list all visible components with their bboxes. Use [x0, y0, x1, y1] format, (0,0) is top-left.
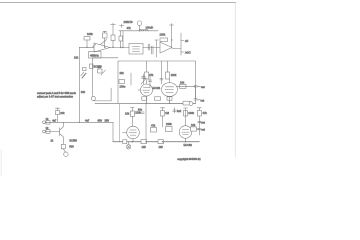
resistor R4: [119, 36, 123, 41]
svg-text:out: out: [201, 99, 205, 103]
capacitor C10: [174, 108, 176, 113]
capacitor C11: [198, 120, 201, 122]
border frame left remnant: [0, 150, 2, 176]
svg-text:out: out: [201, 120, 205, 124]
resistor R6: [98, 69, 103, 73]
border frame right: [234, 2, 236, 157]
resistor R7 plate: [146, 61, 148, 72]
wire coupling riser: [160, 61, 162, 84]
svg-text:10k: 10k: [74, 56, 79, 60]
resistor R29 top: [197, 107, 201, 109]
svg-text:1M: 1M: [165, 111, 169, 115]
svg-text:4u7: 4u7: [85, 118, 90, 122]
wire riser x131: [130, 73, 132, 85]
node phones A: [199, 121, 202, 123]
lamp LA1: [123, 140, 127, 144]
resistor R18: [46, 130, 50, 134]
node line out A: [197, 85, 200, 87]
tube V3: [127, 126, 140, 139]
svg-text:AGC: AGC: [185, 50, 191, 54]
IC filter FL1: [129, 44, 143, 55]
wire output column: [180, 33, 182, 55]
border frame top: [0, 2, 236, 4]
svg-text:220k: 220k: [171, 73, 177, 77]
svg-text:adjust per 1-97 text construct: adjust per 1-97 text construction: [37, 95, 74, 98]
enclosure box right: [195, 61, 197, 103]
jack J1: [91, 96, 95, 100]
tube V2: [162, 83, 178, 97]
resistor R1: [84, 37, 90, 41]
wire long vertical bus: [78, 47, 80, 122]
diode D1 LED: [82, 73, 86, 78]
transistor Q2: [101, 70, 106, 75]
power tap +V left: [111, 24, 116, 26]
resistor R27 on rail: [158, 140, 164, 144]
svg-text:560: 560: [69, 145, 74, 149]
capacitor C12: [198, 127, 201, 129]
wire input top-left: [79, 46, 94, 48]
wire riser x92: [91, 58, 93, 96]
jack J3 mic: [63, 149, 65, 152]
wire U1 out: [110, 47, 129, 49]
resistor R28 cathode: [167, 97, 172, 100]
svg-text:100k: 100k: [87, 32, 93, 36]
resistor R26 on rail: [141, 140, 147, 144]
capacitor C9: [141, 111, 144, 113]
svg-text:220k: 220k: [166, 122, 172, 126]
svg-text:4k7: 4k7: [97, 65, 102, 69]
enclosure box top: [118, 60, 196, 62]
svg-text:out: out: [201, 85, 205, 89]
node OUT1: [181, 40, 184, 42]
jack J2: [189, 102, 193, 106]
wire U2 out: [172, 48, 181, 50]
resistor R17: [46, 121, 50, 125]
svg-text:1k5: 1k5: [142, 145, 147, 149]
tube V4: [179, 126, 192, 139]
svg-text:ECC81: ECC81: [153, 87, 161, 90]
wire ground rail mid: [95, 102, 196, 104]
svg-text:10k: 10k: [60, 111, 65, 115]
op-amp U1: [94, 43, 110, 52]
resistor R14 cathode: [155, 97, 161, 100]
svg-text:out: out: [201, 128, 205, 132]
svg-text:47k: 47k: [151, 124, 156, 128]
node line out B: [197, 99, 200, 101]
resistor R15 on rail: [183, 101, 190, 105]
svg-text:455kHz: 455kHz: [90, 54, 99, 58]
svg-text:1k: 1k: [51, 140, 54, 143]
crystal X1: [89, 52, 102, 59]
trimmer P1: [103, 30, 107, 32]
wire riser x111: [110, 88, 112, 101]
svg-text:47k: 47k: [203, 111, 208, 115]
resistor R20 grid: [130, 107, 134, 109]
power tap +V right: [170, 24, 174, 26]
ground rail bottom: [113, 141, 199, 143]
svg-text:47k: 47k: [149, 73, 154, 77]
resistor R9 plate: [167, 61, 169, 72]
resistor R25: [191, 127, 197, 131]
transistor Q3: [59, 128, 61, 136]
capacitor C3: [150, 46, 152, 54]
tube V1: [141, 84, 153, 96]
resistor R24 plate: [184, 111, 188, 117]
svg-text:AF: AF: [185, 39, 189, 43]
svg-text:47k: 47k: [127, 26, 132, 30]
wire top rail: [119, 30, 158, 32]
svg-text:ECC82: ECC82: [184, 143, 193, 147]
enclosure box left: [117, 61, 119, 103]
svg-text:1k: 1k: [46, 126, 49, 130]
resistor R16: [56, 111, 60, 115]
inductor L1: [139, 29, 148, 30]
svg-text:100uH: 100uH: [146, 26, 154, 30]
wire riser x156: [156, 40, 158, 57]
svg-text:100k: 100k: [160, 32, 166, 36]
capacitor C5 variable: [143, 74, 145, 84]
capacitor C2: [147, 44, 149, 50]
svg-text:2n2: 2n2: [177, 109, 182, 113]
wire J1 out: [95, 100, 111, 102]
resistor R19 emitter: [61, 144, 65, 149]
terminal input A: [43, 121, 46, 124]
svg-text:100k: 100k: [188, 111, 194, 115]
wire input A: [45, 121, 63, 123]
wire V4 out: [192, 128, 200, 130]
resistor R22: [166, 127, 173, 132]
wire box edge down: [118, 104, 120, 142]
op-amp U2: [160, 42, 172, 53]
wire input B: [45, 131, 59, 133]
svg-text:2N5179: 2N5179: [124, 20, 134, 24]
svg-text:10k: 10k: [180, 80, 185, 84]
meter M1: [137, 21, 142, 26]
resistor R5 feedback: [160, 38, 168, 42]
capacitor C8: [194, 98, 197, 100]
svg-text:63V: 63V: [98, 118, 103, 122]
wire V2 out: [177, 85, 196, 87]
capacitor C7: [194, 85, 197, 87]
svg-text:10k: 10k: [125, 112, 130, 116]
power tap mic supply: [56, 107, 60, 109]
capacitor C1 input: [93, 44, 96, 46]
wire riser x113: [112, 122, 114, 141]
svg-text:10n: 10n: [138, 108, 143, 112]
resistor R13 cathode: [142, 97, 147, 100]
wire box to U2: [143, 47, 160, 49]
svg-text:1k5: 1k5: [159, 145, 164, 149]
svg-text:25V: 25V: [105, 118, 110, 122]
capacitor C6: [149, 74, 151, 88]
resistor R23: [161, 107, 165, 109]
svg-text:100n: 100n: [120, 84, 126, 88]
svg-text:4u7: 4u7: [52, 119, 57, 122]
transistor Q1: [90, 64, 94, 69]
power tap +V mid: [120, 25, 125, 27]
terminal input B: [43, 130, 46, 133]
wire AF run: [63, 121, 113, 123]
svg-text:10k: 10k: [81, 90, 86, 94]
resistor R10: [180, 84, 187, 88]
wire out column: [198, 120, 200, 136]
svg-text:1k: 1k: [46, 117, 49, 121]
wire mid horizontal: [92, 57, 118, 59]
junction dots: [79, 30, 187, 142]
svg-text:10k: 10k: [191, 123, 196, 127]
wire mid riser x146: [145, 104, 147, 142]
node OUT2: [181, 51, 184, 53]
svg-text:copyright 994084-11: copyright 994084-11: [177, 157, 201, 161]
resistor R2: [111, 35, 115, 41]
wire riser x123: [122, 31, 124, 48]
svg-text:BC550: BC550: [70, 139, 78, 142]
resistor R21: [151, 128, 157, 133]
svg-text:2k2: 2k2: [120, 71, 125, 75]
